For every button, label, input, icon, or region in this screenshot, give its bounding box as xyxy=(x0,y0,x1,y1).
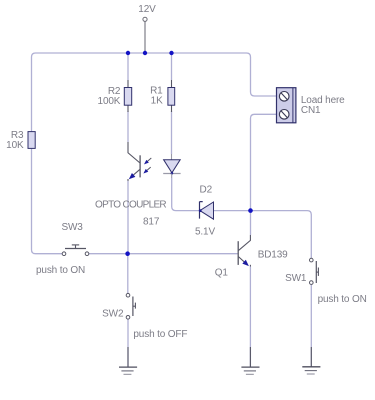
svg-text:D2: D2 xyxy=(200,185,213,196)
svg-text:push to ON: push to ON xyxy=(36,265,85,276)
svg-text:Q1: Q1 xyxy=(215,267,229,278)
ground (Q1 emitter) xyxy=(241,367,259,374)
node B junction (opto emitter / SW3 / Q1 base / SW2) xyxy=(125,251,130,256)
wire R2 bottom to opto collector xyxy=(127,111,129,142)
wire node B to SW2 top xyxy=(127,256,129,294)
wire SW3 right contact to node B xyxy=(89,253,126,255)
wire D2 anode to node A xyxy=(214,210,249,212)
wire left rail from SW3 around top bus to CN1 top terminal xyxy=(32,53,277,254)
ground (SW2) xyxy=(119,367,137,374)
resistor R2 xyxy=(124,80,131,112)
junction node on bus at R1 xyxy=(169,51,173,55)
svg-text:push to OFF: push to OFF xyxy=(133,329,187,340)
transistor Q1 xyxy=(238,235,250,267)
svg-text:BD139: BD139 xyxy=(258,250,288,261)
wire SW1 bottom to ground xyxy=(310,284,312,366)
svg-text:SW3: SW3 xyxy=(62,222,84,233)
svg-text:100K: 100K xyxy=(98,96,121,107)
wire SW2 bottom to ground xyxy=(127,319,129,367)
switch SW3 xyxy=(62,245,89,256)
wire R1 bottom to LED anode xyxy=(171,111,173,154)
wire gray stub above SW1 ground xyxy=(310,347,312,367)
wire node A to SW1 top xyxy=(253,211,312,258)
svg-text:5.1V: 5.1V xyxy=(195,226,215,237)
svg-text:push to ON: push to ON xyxy=(318,294,367,305)
svg-text:817: 817 xyxy=(143,217,160,228)
wire node B to Q1 base xyxy=(130,253,238,255)
svg-text:SW1: SW1 xyxy=(285,273,307,284)
opto-coupler U1 phototransistor xyxy=(128,142,151,181)
svg-text:12V: 12V xyxy=(138,4,156,15)
wire CN1 bottom terminal to node A xyxy=(251,114,277,208)
svg-text:OPTO COUPLER: OPTO COUPLER xyxy=(95,200,167,211)
power terminal 12V pin xyxy=(143,17,147,52)
wire opto emitter to node B xyxy=(127,181,129,252)
zener diode D2 xyxy=(199,202,214,220)
wire gray stub above SW2 ground xyxy=(127,347,129,367)
junction node on bus at 12V feed xyxy=(143,51,147,55)
switch SW2 xyxy=(126,293,135,319)
switch SW1 xyxy=(310,258,319,284)
wire bus to R2 top xyxy=(127,54,129,81)
wire LED cathode to D2 cathode xyxy=(172,178,199,211)
wire node A to Q1 collector xyxy=(250,213,252,235)
node A junction (D2 / CN1 / Q1 / SW1) xyxy=(248,208,253,213)
ground (SW1) xyxy=(302,367,320,374)
svg-text:SW2: SW2 xyxy=(102,308,124,319)
svg-text:1K: 1K xyxy=(151,96,163,107)
wire bus to R1 top xyxy=(171,54,173,81)
wire Q1 emitter to ground xyxy=(249,267,251,368)
svg-text:10K: 10K xyxy=(6,140,24,151)
wire gray stub above Q1 ground xyxy=(249,347,251,367)
resistor R1 xyxy=(168,80,175,112)
opto-coupler U1 LED (diode of opto, below R1) xyxy=(163,154,180,178)
resistor R3 xyxy=(28,132,35,149)
connector CN1 xyxy=(277,88,296,123)
svg-text:CN1: CN1 xyxy=(301,105,321,116)
junction node on bus at R2 xyxy=(126,51,130,55)
